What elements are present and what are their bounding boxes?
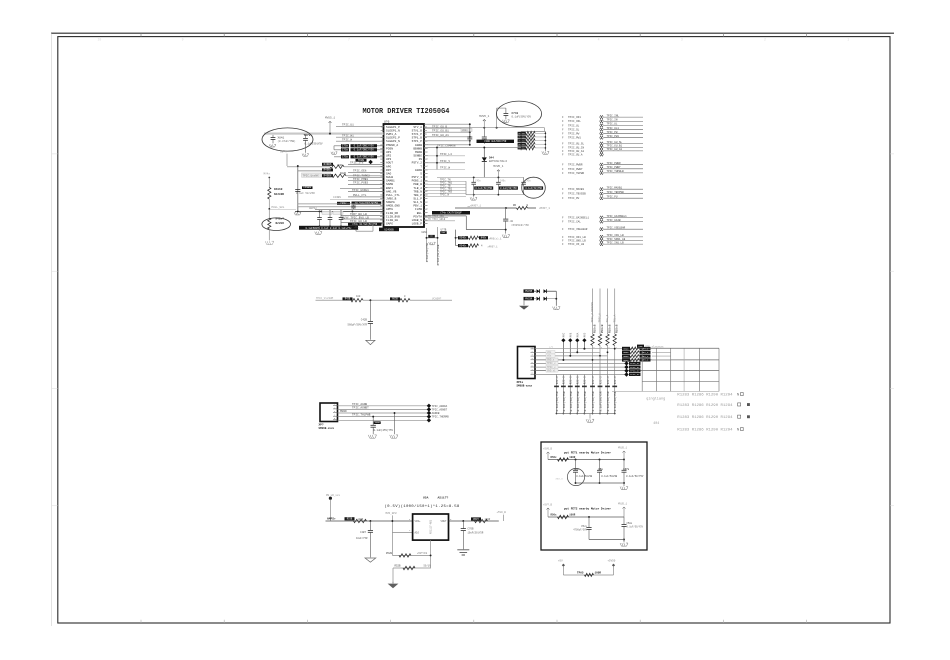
border zone tick marks bottom (140, 620, 142, 623)
svg-text:ILIB_BVB: ILIB_BVB (386, 215, 400, 218)
svg-text:xMV0?_1: xMV0?_1 (488, 246, 499, 249)
svg-text:N2208R: N2208R (274, 193, 284, 196)
svg-text:C39B 4uF/DNI/Y5R: C39B 4uF/DNI/Y5R (484, 140, 507, 143)
svg-text:R726x: R726x (519, 147, 526, 150)
svg-text:TCL_A: TCL_A (613, 314, 616, 322)
capacitor TU7x in ellipse (305, 135, 307, 138)
resistor bank right rail (544, 132, 546, 151)
wire row R52B (392, 554, 431, 556)
svg-text:SOGPG: SOGPG (386, 201, 395, 204)
svg-text:MVD: MVD (583, 332, 586, 337)
svg-text:R4068: R4068 (274, 188, 283, 191)
ground under C48B (368, 435, 376, 438)
svg-text:R1283 R1286 R1290 R1294: R1283 R1286 R1290 R1294 (677, 404, 733, 408)
svg-text:TPIC_PW1: TPIC_PW1 (568, 137, 581, 140)
svg-text:TPIC_UxxNX: TPIC_UxxNX (303, 174, 320, 177)
svg-text:xMVD?_1: xMVD?_1 (470, 204, 481, 207)
svg-text:TPIC_PU: TPIC_PU (568, 197, 580, 200)
wire row 203.9 (298, 203, 384, 205)
resistor R53B (345, 517, 355, 520)
wire diode join vertical (555, 291, 557, 306)
svg-text:R540x: R540x (460, 244, 468, 247)
matrix grid horizontals (638, 347, 719, 349)
svg-text:TPIC_x#: TPIC_x# (630, 373, 640, 376)
junction at 298/166 (297, 165, 299, 167)
wire row 209.4 (315, 208, 384, 210)
svg-text:R59x: R59x (623, 347, 629, 350)
capacitor C74x label black box (348, 223, 382, 226)
ground under E2 (265, 241, 274, 244)
wire TPIC_AGNB row (338, 405, 429, 407)
ground under IC (429, 242, 436, 245)
capacitor C743 in E3 (505, 108, 507, 113)
svg-text:SM06B-xxxx: SM06B-xxxx (319, 427, 335, 430)
svg-text:R56x: R56x (551, 456, 558, 459)
svg-text:R49B7: R49B7 (324, 169, 332, 172)
capacitor C43B branch 2 (483, 128, 485, 137)
sheet border inner frame (58, 37, 890, 623)
harness wire row8 (535, 374, 626, 376)
svg-text:put FET1 nearby Motor Driver: put FET1 nearby Motor Driver (564, 451, 611, 455)
svg-text:TPIC_VxxSUM: TPIC_VxxSUM (316, 297, 334, 300)
svg-text:TD TPIC_GRLB: TD TPIC_GRLB (428, 218, 446, 221)
svg-text:R43B: R43B (345, 298, 351, 301)
wire IC bottom loop (424, 215, 466, 217)
svg-text:TPIC_x#: TPIC_x# (630, 362, 640, 365)
connector XP2 pin ticks (531, 349, 536, 374)
resistor R4068 vertical (268, 187, 271, 199)
pulldown columns left group (556, 375, 558, 414)
svg-text:MVU5_1: MVU5_1 (618, 447, 628, 450)
svg-text:TPIC_GU_B1: TPIC_GU_B1 (607, 145, 623, 148)
svg-text:TPIC_CAL: TPIC_CAL (568, 221, 581, 224)
svg-text:R1283 R1286 R1290 R1294: R1283 R1286 R1290 R1294 (677, 393, 733, 397)
svg-text:TPIC_N: TPIC_N (440, 194, 450, 197)
wire TPIC_GU_B rows group (right top) (424, 123, 470, 125)
svg-text:TPIC_IN1_LB: TPIC_IN1_LB (607, 241, 625, 244)
svg-text:TPIC_AGNDA: TPIC_AGNDA (432, 405, 448, 408)
sheet border outer left line (51, 33, 53, 626)
svg-text:0.1uF500YB 0.1uF 0.1uF 0.1uF+Y: 0.1uF500YB 0.1uF 0.1uF 0.1uF+Y5x (306, 227, 352, 230)
svg-text:TPIC_W: TPIC_W (440, 167, 450, 170)
svg-text:9: 9 (182, 38, 184, 42)
small boxes N8x (428, 235, 435, 238)
wire row 188.3 (340, 187, 384, 189)
svg-text:TBG_P: TBG_P (413, 194, 422, 197)
diode pair row1 (534, 290, 536, 292)
svg-text:C79x: C79x (342, 149, 349, 152)
IC U6 bottom label box U2450B (379, 228, 399, 232)
capacitor C70B (462, 521, 464, 528)
second ground branch (394, 413, 396, 434)
border zone tick marks top (140, 33, 142, 36)
svg-text:MVU5_1: MVU5_1 (493, 165, 503, 168)
svg-text:(0.5V)(1000/150+1)*1.25=8.58: (0.5V)(1000/150+1)*1.25=8.58 (385, 504, 460, 509)
wire TPIC_PMB1 row (348, 180, 384, 182)
grid feed resistor R59x row3 (622, 354, 630, 357)
svg-text:7: 7 (348, 38, 350, 42)
wire TD TPIC_GRLB row (424, 220, 455, 222)
caps trio branches (473, 177, 475, 182)
svg-text:0.1uF 50/25R: 0.1uF 50/25R (296, 191, 315, 195)
svg-text:GB-M: GB-M (280, 151, 287, 154)
decoupling group ellipse XU41 (262, 128, 313, 151)
net diamond TDW9 (368, 160, 372, 164)
svg-text:0.1uF(50)Y5R: 0.1uF(50)Y5R (475, 187, 492, 190)
svg-text:MVB: MVB (569, 332, 572, 337)
svg-text:R52B: R52B (386, 552, 393, 555)
svg-text:MGND: MGND (340, 410, 347, 413)
harness wire row3 (535, 355, 608, 357)
wire row 208 with R6 (455, 207, 506, 209)
svg-text:NULB: NULB (386, 176, 393, 179)
diode pair row2 (534, 298, 536, 300)
svg-text:TPIC_U1: TPIC_U1 (342, 123, 354, 126)
svg-text:R22-3: R22-3 (592, 376, 595, 384)
svg-text:VIN+: VIN+ (415, 520, 422, 523)
svg-text:NET_x: NET_x (642, 351, 649, 354)
capacitor bank caps x3 (319, 211, 321, 217)
svg-text:xMV0(x)_1: xMV0(x)_1 (489, 237, 502, 240)
svg-text:0.1uF(50)Y5R: 0.1uF(50)Y5R (555, 391, 559, 411)
svg-text:TPIC_ITx: TPIC_ITx (350, 162, 364, 165)
wire TPIC_GE8 row (348, 171, 384, 173)
capacitor C41A branch (505, 208, 507, 219)
wire TPIC_L4 row (424, 155, 465, 157)
resistor R54B (471, 517, 481, 520)
svg-text:R49B6: R49B6 (324, 163, 332, 166)
wire row 127.7 long (424, 127, 545, 129)
svg-text:0.1uF(50)Y5R: 0.1uF(50)Y5R (525, 187, 542, 190)
svg-text:U42x: U42x (462, 129, 468, 132)
wire MVU5_1 to IC (329, 123, 331, 134)
svg-text:MVC5M: MVC5M (525, 298, 533, 301)
svg-text:TPIC_A: TPIC_A (599, 313, 602, 323)
svg-text:AOUT: AOUT (386, 162, 393, 165)
svg-text:TPIC_x: TPIC_x (547, 366, 556, 369)
capacitor C4982 on node column (302, 186, 313, 189)
svg-text:R56x: R56x (551, 514, 558, 517)
wire TPIC_PGB3 row (348, 184, 384, 186)
svg-text:VCASM?: VCASM? (432, 297, 442, 300)
pull resistor ellipse E2 (262, 218, 291, 231)
ground stub left cluster (297, 207, 299, 211)
svg-text:TPIC_W1: TPIC_W1 (342, 134, 354, 137)
svg-text:N40x: N40x (481, 237, 487, 240)
op-amp/driver IC U6 body (384, 124, 425, 227)
wire R4068 to PULL_U2L (268, 199, 270, 218)
svg-text:C70B: C70B (468, 528, 475, 531)
wire TPIC_V row (424, 162, 465, 164)
svg-text:BUYY TPIC_BVU_LB: BUYY TPIC_BVU_LB (342, 216, 369, 219)
svg-text:R22-3: R22-3 (577, 376, 580, 384)
svg-text:TRB_N: TRB_N (413, 190, 422, 193)
wire BUYY TPIC_BVU_LB row (341, 218, 384, 220)
svg-text:TPIC_AGNBT: TPIC_AGNBT (352, 407, 369, 410)
capacitor C48B branch (372, 417, 374, 426)
ground open left cluster (294, 212, 301, 215)
ground under C4B7 (365, 558, 376, 562)
svg-text:TPIC_GU_A1: TPIC_GU_A1 (568, 150, 585, 153)
wire sub2 rail (548, 516, 624, 518)
svg-text:STV_A: STV_A (413, 126, 422, 129)
resistor bank R726x rows (518, 132, 526, 135)
svg-text:TPIC_GAINSEL1: TPIC_GAINSEL1 (607, 215, 628, 218)
resistor R63B (390, 297, 400, 300)
svg-text:TPIC_IN: TPIC_IN (607, 119, 618, 122)
matrix grid verticals (641, 348, 643, 391)
ground under C41A (502, 235, 510, 238)
wire rows TN group (424, 180, 466, 182)
wire TD TPIC_GRB row (424, 217, 448, 219)
wire PULL_CTL row (348, 196, 384, 198)
svg-text:MVC: MVC (562, 332, 565, 337)
wire row 177 caps trio (437, 176, 524, 178)
wire MGND row (338, 412, 429, 414)
ground pulldown rail (589, 414, 591, 419)
svg-text:SLEEP2_N: SLEEP2_N (386, 140, 400, 143)
svg-text:0.1uF/50/Y5V: 0.1uF/50/Y5V (626, 475, 644, 478)
svg-text:TPIC_PWBY: TPIC_PWBY (568, 168, 583, 171)
ground under C42B (366, 340, 375, 344)
svg-text:SAMB1: SAMB1 (386, 180, 395, 183)
svg-text:50/1%: 50/1% (424, 565, 432, 568)
wire left diode stub (523, 300, 525, 305)
wire VOUT rail (449, 520, 499, 522)
decoupling ellipse E3 top right (496, 101, 541, 126)
svg-text:R726x: R726x (519, 143, 526, 146)
ground left of C79x rows (331, 152, 337, 154)
svg-text:0.1uF(50)Y5R: 0.1uF(50)Y5R (500, 187, 517, 190)
svg-text:C4B7: C4B7 (360, 531, 367, 534)
svg-text:TPIC_MAXB1: TPIC_MAXB1 (568, 188, 585, 191)
junction column x469.8 (469, 124, 471, 145)
svg-text:0.1uF(50)Y5R: 0.1uF(50)Y5R (606, 391, 610, 411)
svg-text:TPIC_GU_A: TPIC_GU_A (568, 154, 583, 157)
svg-text:R58xB: R58xB (601, 324, 604, 333)
wire row R4986 (287, 166, 330, 168)
wire grey row 199.3 (330, 198, 384, 200)
svg-text:6: 6 (431, 38, 433, 42)
svg-text:MVA: MVA (576, 332, 579, 337)
svg-text:ADJ: ADJ (415, 532, 420, 535)
IC U6 pin stubs (381, 127, 427, 224)
svg-text:TPIC_PWBR: TPIC_PWBR (568, 164, 583, 167)
svg-text:TPIC_SPW1_LB: TPIC_SPW1_LB (607, 238, 626, 241)
svg-text:TPIC_INL: TPIC_INL (607, 114, 620, 117)
svg-text:TPIC_2-DRIVEN: TPIC_2-DRIVEN (591, 302, 594, 323)
wire row R52C (393, 567, 431, 569)
svg-text:0.1uF(50)Y5R: 0.1uF(50)Y5R (591, 391, 595, 411)
svg-text:MVC5M: MVC5M (525, 290, 533, 293)
svg-text:AS1117-ADJ: AS1117-ADJ (430, 519, 433, 534)
svg-text:TPIC_SL: TPIC_SL (568, 128, 580, 131)
wire highlighted band row (264, 132, 384, 135)
IC bottom verticals (426, 228, 428, 262)
capacitor on row 203.9 (353, 205, 355, 206)
svg-text:BGL: BGL (417, 212, 422, 215)
wire down to R4068 (268, 178, 270, 188)
svg-text:GAPG: GAPG (386, 223, 393, 226)
svg-text:SLEEP1_N: SLEEP1_N (386, 130, 400, 133)
svg-text:TPIC_PGB3: TPIC_PGB3 (353, 182, 368, 185)
svg-text:TPIC_PW1: TPIC_PW1 (607, 135, 620, 138)
svg-text:BBNNB: BBNNB (413, 147, 422, 150)
wire TPIC_VxxSUM net (316, 299, 353, 301)
matrix grid horizontal row4 ext (718, 359, 720, 361)
svg-text:TPIC_x#: TPIC_x# (630, 366, 640, 369)
svg-text:TPIC_GAIB: TPIC_GAIB (607, 219, 621, 222)
svg-text:R726x: R726x (519, 136, 526, 139)
svg-text:560pF/50V/X7R: 560pF/50V/X7R (347, 323, 367, 326)
svg-text:+5V?_B: +5V?_B (543, 504, 553, 507)
wire TPIC_W row (336, 140, 384, 142)
wire TDR_BU_LB row (341, 215, 384, 217)
wire ADJ feedback (391, 532, 393, 555)
svg-text:10uF(50)Y5R: 10uF(50)Y5R (468, 531, 484, 534)
svg-text:U2N1: U2N1 (422, 231, 428, 234)
svg-text:100R: 100R (569, 456, 576, 459)
svg-text:TPIC_PU: TPIC_PU (607, 196, 618, 199)
decoupling ellipse E4 (522, 177, 546, 198)
svg-text:TPIC_AGNBT: TPIC_AGNBT (432, 408, 448, 411)
capacitor right sub2 (623, 517, 625, 524)
svg-text:TPIC_G6FE1: TPIC_G6FE1 (352, 189, 369, 192)
capacitor C74x below row (355, 226, 357, 227)
svg-text:C49x: C49x (475, 179, 481, 182)
IC U6 left pin numbers (380, 125, 383, 225)
svg-text:+5V50: +5V50 (608, 560, 616, 563)
ground under resistor bank (544, 149, 546, 152)
grid feed resistor R59x row4 (622, 358, 630, 361)
svg-text:TCL_1: TCL_1 (606, 314, 609, 322)
svg-text:TPIC_UL1: TPIC_UL1 (607, 127, 620, 130)
svg-text:SL1_N: SL1_N (413, 201, 422, 204)
bus wire TCL_1 (607, 289, 609, 335)
wire TPIC_GU_LB row (341, 222, 384, 224)
svg-text:APPG: APPG (386, 208, 393, 211)
diode D44 (483, 148, 485, 158)
svg-text:TPIC_L4: TPIC_L4 (440, 153, 452, 156)
svg-text:N: N (737, 429, 739, 433)
svg-text:GGNB: GGNB (415, 144, 422, 147)
svg-text:R59x: R59x (623, 359, 629, 362)
junction dots on harness (562, 359, 564, 361)
resistor R4988 (322, 174, 333, 177)
svg-text:0.1uF(50)Y5R: 0.1uF(50)Y5R (599, 391, 603, 411)
capacitor C79x row 3 label (341, 155, 349, 158)
svg-text:R63B: R63B (392, 298, 398, 301)
wire row5 (338, 419, 429, 421)
svg-text:R1283 R1286 R1290 R1294: R1283 R1286 R1290 R1294 (677, 428, 733, 432)
border zone tick marks right faint (890, 153, 894, 155)
svg-text:MVD_GPU: MVD_GPU (386, 512, 397, 515)
svg-text:0.1uF(50)Y5V: 0.1uF(50)Y5V (305, 142, 324, 145)
svg-text:0.1uF(50)Y5R: 0.1uF(50)Y5R (583, 391, 587, 411)
harness wire row4 long (535, 359, 719, 361)
svg-text:TPIC_THPWLB: TPIC_THPWLB (607, 170, 625, 173)
wire to net VCASM (410, 299, 452, 301)
svg-text:MVU5_1: MVU5_1 (618, 503, 628, 506)
wire bridge bottom (563, 574, 613, 576)
svg-text:JVBG_B: JVBG_B (386, 198, 397, 201)
svg-text:BAT54SLT3G/A: BAT54SLT3G/A (489, 160, 508, 163)
wire TPIC_T0RG2 row (348, 176, 384, 178)
capacitor C49x row label (337, 202, 350, 205)
grid feed resistor top label (637, 345, 644, 348)
svg-text:+5V: +5V (558, 560, 563, 563)
svg-text:100R: 100R (569, 514, 576, 517)
capacitor mid sub2 (588, 516, 590, 518)
svg-text:R22-3: R22-3 (556, 376, 559, 384)
svg-text:R58xB: R58xB (593, 324, 596, 333)
svg-text:L/x: L/x (549, 346, 554, 349)
svg-text:C43BN: C43BN (333, 196, 341, 199)
svg-text:C5xx: C5xx (581, 525, 587, 528)
svg-text:SM08B-xxxx: SM08B-xxxx (517, 385, 533, 388)
capacitor values black box row (299, 226, 358, 230)
harness wire row2 (535, 351, 600, 353)
grid feed resistor R59x row2 (622, 351, 630, 354)
svg-text:R40x?: R40x? (276, 218, 285, 221)
bottom junction (427, 237, 438, 239)
svg-text:LOGB_N: LOGB_N (412, 219, 423, 222)
svg-text:TPIC_TBXPSB: TPIC_TBXPSB (607, 191, 625, 194)
junction dot C4B7 (369, 520, 371, 522)
svg-text:xMVD?_1: xMVD?_1 (539, 207, 550, 210)
svg-text:R22-3: R22-3 (614, 376, 617, 384)
svg-text:R22-3: R22-3 (563, 376, 566, 384)
svg-text:AS117?: AS117? (438, 496, 449, 499)
svg-text:0.1uF(50)Y5R: 0.1uF(50)Y5R (576, 391, 580, 411)
svg-text:N220R: N220R (276, 222, 285, 225)
net diamonds XP3 (427, 404, 431, 408)
resistor R540x row1 (456, 237, 465, 239)
svg-text:PMGND_A: PMGND_A (386, 144, 398, 147)
resistor bank top wire (521, 131, 545, 133)
svg-text:R6: R6 (513, 204, 517, 207)
caps trio bottom wire (474, 194, 524, 196)
pulldown columns under bus (592, 375, 594, 414)
svg-text:1: 1 (847, 38, 849, 42)
svg-text:TPIC_GU_SL: TPIC_GU_SL (607, 141, 623, 144)
svg-text:TPIC_MAXB1: TPIC_MAXB1 (607, 187, 623, 190)
svg-text:10uF/Y5R: 10uF/Y5R (356, 537, 368, 540)
svg-text:VOUT: VOUT (440, 520, 447, 523)
svg-text:NET_x: NET_x (642, 359, 649, 362)
svg-text:TPIC_GU_B1: TPIC_GU_B1 (432, 129, 449, 132)
svg-text:MOTOR DRIVER TI2050G4: MOTOR DRIVER TI2050G4 (363, 108, 450, 116)
svg-text:C42B: C42B (361, 319, 368, 322)
svg-text:STV1_B: STV1_B (412, 130, 423, 133)
junction dots on row177 (473, 176, 475, 178)
svg-text:SAMB: SAMB (386, 183, 393, 186)
svg-text:+5V?/1%: +5V?/1% (417, 552, 428, 555)
resistor R540x row2 (456, 245, 465, 247)
svg-text:R58xB: R58xB (608, 324, 611, 333)
svg-text:NET_x: NET_x (642, 347, 649, 350)
svg-text:PULL_U2L: PULL_U2L (272, 206, 285, 209)
svg-text:TPIC_GE8: TPIC_GE8 (353, 170, 367, 173)
wire ADJ pin (392, 531, 412, 533)
svg-text:U?6: U?6 (384, 120, 390, 123)
harness wire row7 long (535, 370, 719, 372)
svg-text:MV4x: MV4x (264, 173, 271, 176)
harness wire row1 (535, 348, 643, 350)
wire cap bottoms join (320, 225, 342, 227)
svg-text:C79x: C79x (342, 156, 349, 159)
svg-text:(0.47uF/Y5B): (0.47uF/Y5B) (278, 140, 297, 143)
